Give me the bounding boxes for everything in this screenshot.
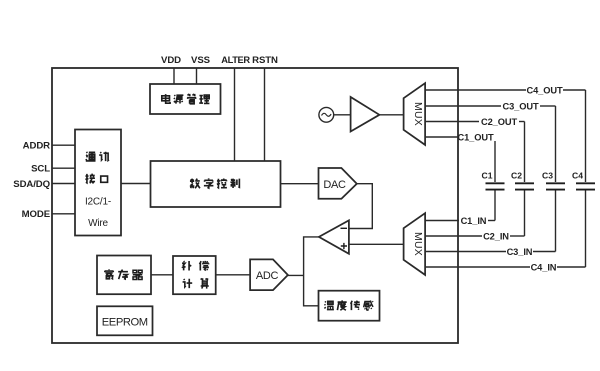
svg-text:C2_IN: C2_IN — [483, 231, 509, 241]
chip boundary rectangle — [52, 68, 458, 343]
svg-text:EEPROM: EEPROM — [102, 316, 148, 328]
svg-text:C3_IN: C3_IN — [507, 247, 533, 257]
wire MUX2 output to op-amp non-inverting input — [349, 243, 404, 245]
svg-text:Wire: Wire — [88, 218, 108, 229]
wire register to compensation — [151, 274, 173, 276]
svg-text:C1_IN: C1_IN — [461, 216, 487, 226]
wire+label C1_OUT — [425, 132, 495, 182]
compensation calculation box (buchang jisuan) — [173, 256, 216, 294]
MUX1 (output multiplexer) — [404, 83, 426, 145]
wire SCL pin — [52, 167, 75, 169]
buffer amplifier triangle — [351, 97, 380, 132]
svg-text:C4: C4 — [572, 170, 583, 180]
wire+label C4_IN — [425, 191, 585, 273]
wire compensation to ADC — [216, 274, 250, 276]
communication interface box (tongxun jiekou I2C/1-Wire) — [75, 130, 121, 236]
power management box (dianyuan guanli) — [150, 84, 221, 114]
svg-text:C1_OUT: C1_OUT — [457, 132, 494, 142]
wire RSTN pin to digital control — [264, 68, 266, 161]
wire VSS pin into power box — [196, 68, 198, 84]
svg-text:MUX: MUX — [412, 102, 424, 126]
svg-text:C3: C3 — [542, 170, 553, 180]
wire op-amp output node to ADC and temperature sensor — [288, 237, 319, 306]
svg-text:C3_OUT: C3_OUT — [502, 101, 539, 111]
wire+label C3_IN — [425, 191, 555, 257]
wire+label C2_IN — [425, 191, 524, 242]
svg-text:SCL: SCL — [31, 164, 50, 175]
wire ADDR pin — [52, 144, 75, 146]
capacitor C3 — [542, 170, 565, 189]
oscillator (sine source) — [319, 107, 334, 122]
capacitor C1 — [482, 170, 505, 189]
wire SDA/DQ pin — [52, 183, 75, 185]
svg-text:MUX: MUX — [412, 232, 424, 256]
svg-text:ADC: ADC — [256, 270, 279, 282]
wire oscillator to buffer amp — [334, 114, 351, 116]
wire amp to MUX1 — [379, 114, 403, 116]
MUX2 (input multiplexer) — [404, 213, 426, 275]
wire MODE pin — [52, 213, 75, 215]
svg-text:ADDR: ADDR — [23, 141, 50, 152]
wire+label C1_IN — [425, 191, 495, 226]
wire DAC output to op-amp inverting input — [349, 184, 372, 229]
svg-text:C2: C2 — [511, 170, 522, 180]
svg-text:DAC: DAC — [323, 179, 346, 191]
svg-text:SDA/DQ: SDA/DQ — [13, 179, 50, 190]
svg-text:C4_OUT: C4_OUT — [526, 85, 563, 95]
DAC block — [319, 168, 357, 199]
capacitor C2 — [511, 170, 534, 189]
wire+label C3_OUT — [425, 101, 555, 182]
EEPROM box — [97, 306, 153, 335]
wire+label C2_OUT — [425, 117, 524, 182]
svg-text:VSS: VSS — [191, 55, 211, 66]
capacitor C4 — [572, 170, 595, 189]
svg-text:C1: C1 — [482, 170, 493, 180]
op-amp comparator — [319, 220, 349, 253]
register box (jicunqi) — [97, 256, 151, 295]
svg-text:C4_IN: C4_IN — [531, 262, 557, 272]
temperature sensor box (wendu chuangan) — [319, 291, 380, 321]
svg-text:VDD: VDD — [161, 55, 181, 66]
svg-text:I2C/1-: I2C/1- — [85, 197, 111, 208]
svg-text:MODE: MODE — [22, 209, 51, 220]
wire+label C4_OUT — [425, 85, 585, 182]
svg-text:C2_OUT: C2_OUT — [481, 117, 518, 127]
wire digital control to DAC — [281, 183, 319, 185]
wire comm interface to digital control — [121, 183, 151, 185]
svg-text:ALTER: ALTER — [221, 55, 250, 65]
wire VDD pin into power box — [173, 68, 175, 84]
digital control box (shuzi kongzhi) — [151, 161, 281, 207]
wire ALTER pin to digital control — [234, 68, 236, 161]
svg-text:RSTN: RSTN — [252, 55, 278, 66]
ADC block — [250, 259, 288, 290]
